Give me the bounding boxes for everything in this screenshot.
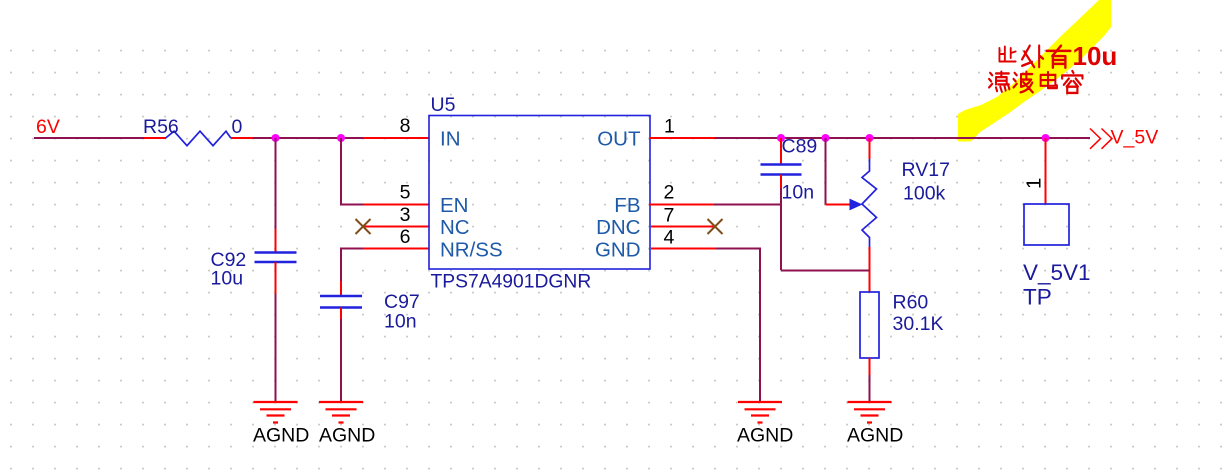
svg-text:0: 0 bbox=[232, 116, 243, 138]
wire 6V input bbox=[34, 137, 144, 139]
svg-text:V_5V: V_5V bbox=[1111, 127, 1159, 149]
svg-text:1: 1 bbox=[664, 116, 675, 138]
svg-text:U5: U5 bbox=[431, 94, 456, 116]
svg-text:TPS7A4901DGNR: TPS7A4901DGNR bbox=[431, 272, 592, 293]
wire OUT to wiper bbox=[826, 138, 851, 205]
svg-text:TP: TP bbox=[1023, 285, 1052, 310]
svg-text:AGND: AGND bbox=[737, 425, 793, 447]
wire EN branch bbox=[341, 138, 363, 205]
svg-text:100k: 100k bbox=[903, 183, 946, 205]
wire pin6 stub bbox=[363, 248, 429, 250]
svg-text:GND: GND bbox=[595, 239, 641, 262]
svg-text:10u: 10u bbox=[211, 268, 244, 290]
svg-text:10n: 10n bbox=[384, 311, 417, 333]
svg-text:V_5V1: V_5V1 bbox=[1023, 260, 1091, 285]
svg-text:AGND: AGND bbox=[847, 425, 903, 447]
svg-text:2: 2 bbox=[664, 182, 675, 204]
svg-text:DNC: DNC bbox=[596, 216, 641, 239]
no-connect X pin3 bbox=[356, 219, 430, 234]
svg-text:5: 5 bbox=[400, 182, 411, 204]
off-page connector V_5V bbox=[1090, 127, 1158, 149]
svg-text:EN: EN bbox=[440, 194, 468, 217]
ground AGND 2 bbox=[319, 402, 375, 447]
junction dot B bbox=[337, 134, 345, 142]
svg-text:6: 6 bbox=[400, 226, 411, 248]
svg-text:6V: 6V bbox=[36, 116, 60, 138]
potentiometer RV17 bbox=[862, 138, 950, 292]
junction dot wiper bbox=[822, 134, 830, 142]
voltage regulator U5 TPS7A4901DGNR bbox=[400, 94, 675, 293]
svg-text:NC: NC bbox=[440, 216, 470, 239]
test point V_5V1 bbox=[1023, 138, 1091, 310]
wire pin4 GND stub bbox=[651, 248, 716, 250]
wire input to IC bbox=[253, 137, 363, 139]
svg-text:1: 1 bbox=[1023, 178, 1046, 189]
wire C89 bottom to R60 bbox=[781, 270, 870, 272]
wire NR/SS branch bbox=[341, 249, 363, 282]
svg-text:10u: 10u bbox=[1073, 41, 1118, 71]
wire pin2 FB stub bbox=[649, 204, 714, 206]
svg-text:3: 3 bbox=[400, 204, 411, 226]
svg-text:NR/SS: NR/SS bbox=[440, 239, 503, 262]
junction dot A bbox=[272, 134, 280, 142]
svg-text:AGND: AGND bbox=[319, 425, 375, 447]
wiper arrow bbox=[850, 199, 863, 211]
capacitor C97 bbox=[320, 249, 420, 403]
resistor R56 bbox=[143, 116, 253, 146]
svg-text:AGND: AGND bbox=[253, 425, 309, 447]
wire pin5 stub bbox=[363, 204, 429, 206]
ground AGND 3 bbox=[737, 402, 793, 447]
wire OUT main bbox=[715, 137, 1090, 139]
svg-text:4: 4 bbox=[664, 227, 675, 249]
annotation chinese line1 bbox=[999, 46, 1070, 68]
svg-text:R56: R56 bbox=[143, 116, 179, 138]
junction dot C89 bbox=[777, 134, 785, 142]
no-connect X pin7 bbox=[651, 219, 723, 234]
svg-text:7: 7 bbox=[664, 205, 675, 227]
junction dot RV17 bbox=[866, 134, 874, 142]
svg-text:10n: 10n bbox=[782, 182, 815, 204]
resistor R60 bbox=[860, 292, 943, 403]
svg-text:IN: IN bbox=[440, 128, 461, 151]
highlighter yellow band bbox=[958, 0, 1111, 142]
svg-text:8: 8 bbox=[400, 115, 411, 137]
svg-text:OUT: OUT bbox=[597, 128, 641, 151]
capacitor C92 bbox=[211, 138, 297, 402]
junction dot TP bbox=[1042, 134, 1050, 142]
svg-text:RV17: RV17 bbox=[902, 159, 950, 181]
ground AGND 4 bbox=[847, 402, 903, 447]
capacitor C89 bbox=[761, 136, 818, 271]
wire GND down bbox=[716, 249, 760, 403]
wire FB to C89 bbox=[714, 204, 781, 206]
svg-text:C89: C89 bbox=[782, 136, 818, 158]
wire pin8 stub bbox=[363, 137, 429, 139]
svg-text:FB: FB bbox=[614, 194, 640, 217]
svg-text:R60: R60 bbox=[893, 292, 929, 314]
annotation chinese line2 bbox=[989, 71, 1082, 93]
ground AGND 1 bbox=[253, 402, 309, 447]
wire pin1 stub bbox=[650, 137, 715, 139]
svg-text:30.1K: 30.1K bbox=[893, 313, 944, 335]
